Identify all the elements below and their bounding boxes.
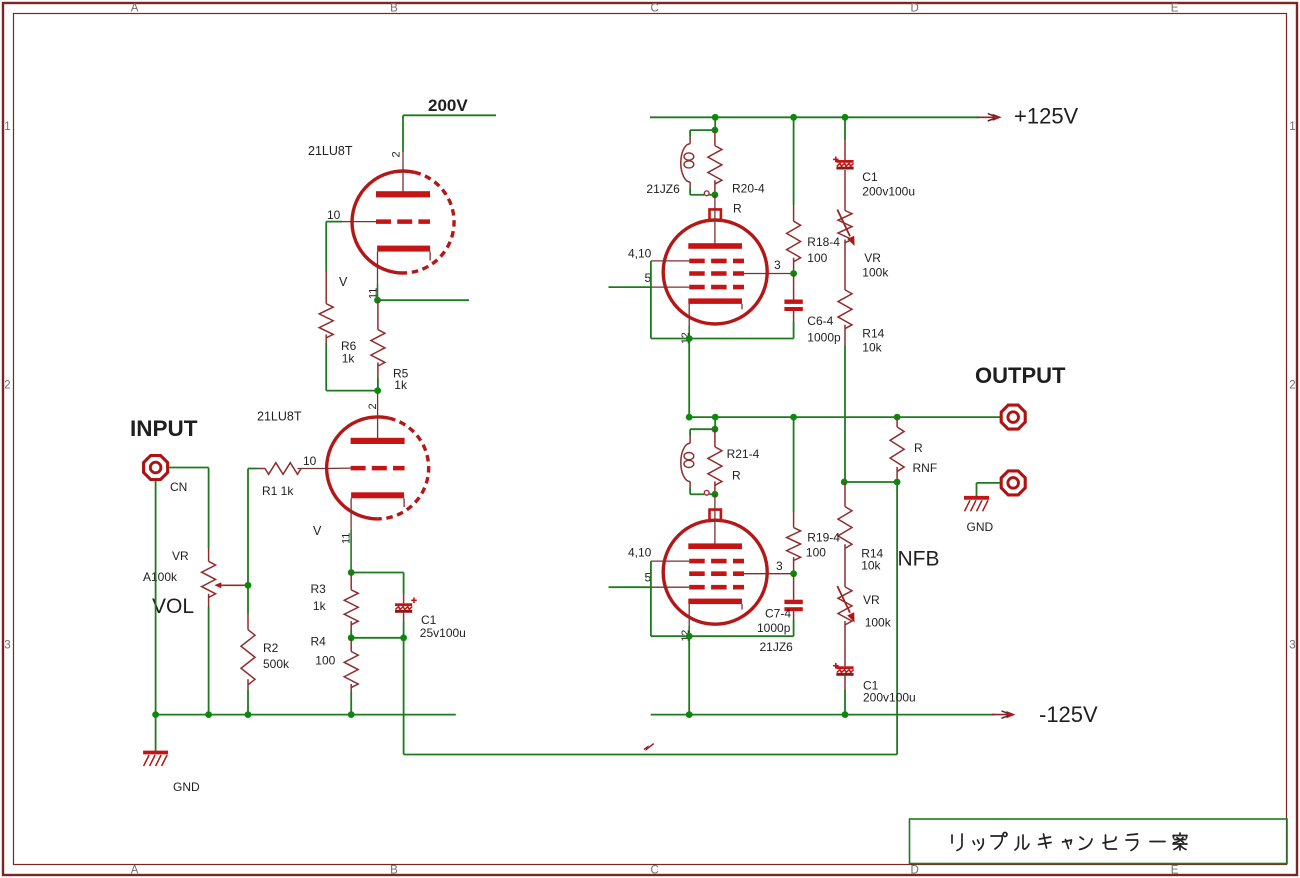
label NFB — [898, 548, 940, 571]
svg-text:11: 11 — [341, 533, 353, 544]
pentode U4 cathode corner — [741, 604, 743, 609]
triode U2 21LU8T envelope — [327, 417, 429, 519]
node mid-left — [686, 414, 693, 421]
wire C1 to R3R4 node — [351, 637, 403, 639]
wire R18 column top — [793, 117, 795, 205]
wire R3 bottom — [350, 630, 352, 638]
label 200V — [428, 96, 468, 115]
wire cathode tie upper — [689, 338, 793, 340]
wire o to node 2 — [709, 493, 715, 495]
node rail-R18 — [790, 114, 797, 121]
pin 2 label V1 — [391, 151, 403, 157]
svg-text:100k: 100k — [865, 616, 892, 630]
svg-text:VR: VR — [864, 251, 881, 265]
label R14 upper — [862, 327, 884, 341]
svg-text:R3: R3 — [311, 582, 327, 596]
capacitor C1 200v100u upper — [833, 140, 854, 174]
wire VR to R14 upper — [844, 240, 846, 290]
svg-text:3: 3 — [1289, 640, 1295, 652]
triode U2 cathode lead — [350, 498, 352, 572]
pentode U4 plate lead — [714, 494, 716, 543]
label VR 100k lower — [865, 616, 892, 630]
node mid-R19 — [790, 414, 797, 421]
label R6 1k — [342, 352, 356, 366]
node V2 cathode — [348, 569, 355, 576]
pentode U3 g3 lead — [652, 286, 689, 288]
node mid-stopper2 — [712, 414, 719, 421]
svg-text:1000p: 1000p — [757, 621, 791, 635]
label R20-4 R — [733, 202, 742, 216]
wire pot bottom to rail — [208, 607, 210, 715]
svg-text:C1: C1 — [862, 170, 878, 184]
svg-text:R18-4: R18-4 — [807, 235, 840, 249]
svg-text:R: R — [732, 469, 741, 483]
svg-text:1: 1 — [4, 121, 10, 133]
label RNF — [913, 461, 938, 475]
wire to ground symbol — [155, 715, 157, 751]
triode U2 plate bar — [351, 438, 405, 444]
wire U4 cathode to rail — [688, 636, 690, 714]
svg-text:21JZ6: 21JZ6 — [760, 640, 794, 654]
wire cathode to C1 branch — [351, 573, 403, 595]
label 4,10 lower — [628, 546, 652, 560]
resistor R4 100 — [344, 638, 358, 692]
pentode U3 grid3 — [689, 285, 744, 290]
label 21LU8T lower — [257, 410, 302, 424]
svg-text:RNF: RNF — [913, 461, 938, 475]
svg-text:10: 10 — [303, 454, 317, 468]
arrow -125V — [992, 711, 1016, 718]
wire R14 down across rail — [844, 345, 846, 482]
resistor R14 10k upper — [838, 290, 852, 345]
node rail-R2 — [245, 711, 252, 718]
label 5 lower — [645, 571, 652, 585]
label R20-4 — [732, 182, 765, 196]
svg-text:21LU8T: 21LU8T — [308, 144, 353, 158]
label GND output — [967, 520, 994, 534]
node rail-R4 — [348, 711, 355, 718]
label VR lower — [863, 593, 880, 607]
label C1 lower right — [863, 679, 879, 693]
label VR upper — [864, 251, 881, 265]
svg-text:3: 3 — [4, 640, 10, 652]
triode U1 21LU8T envelope — [352, 171, 454, 273]
resistor R21-4 — [708, 429, 722, 494]
label 5 upper — [645, 271, 652, 285]
svg-text:R14: R14 — [862, 327, 884, 341]
wire C1 bottom — [403, 622, 405, 638]
resistor R6 1k — [319, 272, 333, 343]
wire g1 bracket upper — [651, 261, 689, 339]
svg-text:200v100u: 200v100u — [862, 185, 915, 199]
title text リップルキャンセラー案 — [952, 833, 1187, 851]
label R1 1k — [262, 484, 294, 498]
label A100k — [143, 570, 178, 584]
resistor R3 1k — [344, 573, 358, 631]
pentode U3 cathode lead — [688, 304, 690, 339]
pentode U4 g1 lead — [651, 560, 689, 562]
svg-text:2: 2 — [4, 380, 10, 392]
pentode U4 g3 lead — [652, 586, 689, 588]
node R5-R6-plate — [374, 387, 381, 394]
svg-text:R2: R2 — [263, 641, 279, 655]
wire stopper1 stub — [714, 117, 716, 130]
label C1 — [421, 613, 437, 627]
label R5 — [393, 367, 409, 381]
label 3 upper — [774, 258, 781, 272]
wire +125V rail — [650, 116, 979, 118]
node RNF bottom — [894, 479, 901, 486]
svg-text:R20-4: R20-4 — [732, 182, 765, 196]
svg-text:C1: C1 — [421, 613, 437, 627]
svg-text:CN: CN — [170, 480, 187, 494]
node V1 cathode — [374, 297, 381, 304]
svg-text:R1 1k: R1 1k — [262, 484, 294, 498]
svg-text:E: E — [1171, 865, 1179, 877]
pentode U4 grid3 — [689, 585, 744, 590]
wire wiper junction up to R1 — [248, 469, 257, 586]
connector CN input — [144, 455, 168, 479]
label R19-4 100 — [806, 546, 826, 560]
wire C1 lower to rail — [844, 690, 846, 715]
svg-text:500k: 500k — [263, 657, 290, 671]
svg-text:E: E — [1171, 3, 1179, 15]
pentode U3 plate lead — [714, 195, 716, 244]
label VOL — [152, 595, 194, 618]
label C6-4 1000p — [807, 331, 841, 345]
rheostat VR 100k upper — [837, 210, 854, 247]
label +125V — [1014, 104, 1079, 129]
wire C1a to VR — [844, 174, 846, 211]
ground GND output — [964, 498, 989, 512]
triode U2 grid — [351, 466, 405, 471]
wire -125V rail — [651, 714, 995, 716]
wire R2 bottom to rail — [247, 690, 249, 715]
resistor R14 10k lower — [838, 482, 852, 587]
svg-text:C7-4: C7-4 — [765, 607, 791, 621]
label 4,10 upper — [628, 247, 652, 261]
label R6 — [341, 339, 357, 353]
pentode U3 grid1 — [689, 259, 744, 264]
svg-text:10k: 10k — [861, 559, 881, 573]
node U4 cathode — [686, 633, 693, 640]
capacitor C7-4 1000p — [784, 574, 802, 620]
node stopper1 top — [712, 127, 719, 134]
triode U2 cathode corner — [403, 498, 405, 507]
wire ground rail left — [156, 714, 456, 716]
wire C7-4 bottom — [793, 620, 795, 636]
svg-text:1k: 1k — [394, 378, 408, 392]
label R4 — [311, 635, 327, 649]
resistor R RNF — [890, 417, 904, 482]
label R2 — [263, 641, 279, 655]
svg-text:B: B — [390, 865, 398, 877]
wire pot top vertical — [208, 468, 210, 549]
svg-text:VR: VR — [172, 549, 189, 563]
pentode U4 cathode lead — [688, 604, 690, 636]
triode U1 cathode bar — [377, 246, 430, 252]
svg-text:21JZ6: 21JZ6 — [646, 182, 680, 196]
capacitor C6-4 1000p — [784, 274, 802, 323]
svg-text:200v100u: 200v100u — [863, 691, 916, 705]
label R21-4 — [727, 447, 760, 461]
wire mid rail — [689, 416, 1000, 418]
node rail-connector — [152, 711, 159, 718]
svg-text:INPUT: INPUT — [130, 416, 198, 441]
label 25v100u — [420, 626, 466, 640]
svg-text:R4: R4 — [311, 635, 327, 649]
label V upper — [339, 275, 348, 289]
label R5 1k — [394, 378, 408, 392]
label C6-4 — [807, 314, 833, 328]
svg-text:21LU8T: 21LU8T — [257, 410, 302, 424]
wire cathode tie lower — [689, 635, 793, 637]
triode U2 grid lead pin 10 — [326, 467, 351, 469]
resistor R18-4 100 — [787, 205, 801, 274]
wire feedback up to NFB — [896, 482, 898, 755]
pentode U3 cathode corner — [741, 304, 743, 309]
pentode U4 grid2 — [689, 571, 744, 576]
pin 11 label V2 — [341, 533, 353, 544]
label R14 lower — [861, 547, 883, 561]
node wiper junction — [245, 582, 252, 589]
node rail-C1a — [842, 114, 849, 121]
wire feedback across — [404, 754, 897, 756]
svg-text:2: 2 — [1289, 380, 1295, 392]
label 21JZ6 lower — [760, 640, 794, 654]
svg-text:C: C — [650, 3, 658, 15]
pentode U4 plate bar — [688, 543, 742, 549]
svg-text:200V: 200V — [428, 96, 468, 115]
wire grid corner V1 — [326, 222, 342, 272]
node C1 bottom — [400, 634, 407, 641]
triode U2 cathode bar — [351, 492, 404, 498]
triode U1 plate lead — [402, 152, 404, 192]
svg-text:1k: 1k — [342, 352, 356, 366]
wire R4 bottom to rail — [350, 692, 352, 715]
node tie left — [841, 479, 848, 486]
node pin3 upper — [790, 270, 797, 277]
wire stopper2 stub — [714, 417, 716, 429]
wire L1 top — [690, 130, 715, 144]
label 21LU8T upper — [308, 144, 353, 158]
wire L2 top — [690, 429, 715, 443]
node stopper1 bottom — [712, 191, 719, 198]
pentode U3 grid2 — [689, 271, 744, 276]
node R3-R4 — [348, 634, 355, 641]
resistor R19-4 100 — [787, 512, 801, 574]
node stopper2 bottom — [712, 491, 719, 498]
connector OUTPUT gnd — [1001, 471, 1025, 495]
svg-text:GND: GND — [967, 520, 994, 534]
svg-text:100: 100 — [806, 546, 826, 560]
wire NFB tie — [844, 481, 897, 483]
svg-text:B: B — [390, 3, 398, 15]
label R21-4 R — [732, 469, 741, 483]
label 3 lower — [776, 559, 783, 573]
node rail-C1lower — [842, 711, 849, 718]
pentode U4 cathode bar — [688, 599, 742, 605]
label R19-4 — [807, 531, 840, 545]
label 21JZ6 upper — [646, 182, 680, 196]
svg-text:100: 100 — [807, 251, 827, 265]
label R3 — [311, 582, 327, 596]
resistor R5 1k — [371, 300, 385, 378]
inductor L1 — [681, 144, 694, 182]
svg-text:2: 2 — [391, 151, 403, 157]
pentode U4 21JZ6 envelope — [663, 510, 767, 625]
svg-text:V: V — [313, 524, 322, 538]
pentode U3 pin3 lead — [744, 273, 794, 275]
pentode U4 grid1 — [689, 559, 744, 564]
rheostat VR 100k lower — [837, 586, 854, 625]
potentiometer VR A100k element — [202, 548, 216, 607]
svg-text:D: D — [910, 3, 918, 15]
wire C6-4 bottom — [793, 322, 795, 339]
pentode U3 21JZ6 envelope — [663, 209, 767, 324]
wire 200V rail — [403, 114, 496, 116]
svg-text:R19-4: R19-4 — [807, 531, 840, 545]
svg-text:VR: VR — [863, 593, 880, 607]
wire feedback down — [403, 638, 405, 755]
pentode U3 cathode bar — [688, 298, 742, 304]
svg-text:1: 1 — [1289, 121, 1295, 133]
triode U1 cathode lead — [377, 252, 379, 301]
svg-text:R: R — [733, 202, 742, 216]
wire g3 stub upper — [609, 286, 653, 288]
pentode U3 plate bar — [688, 243, 742, 249]
triode U1 cathode corner — [429, 252, 431, 261]
inductor L2 — [681, 443, 694, 481]
resistor R2 500k — [241, 614, 255, 690]
pin 11 label V1 — [368, 288, 380, 299]
label CN — [170, 480, 187, 494]
label RNF R — [914, 441, 923, 455]
ground GND input — [143, 753, 168, 767]
svg-text:4,10: 4,10 — [628, 247, 652, 261]
svg-text:25v100u: 25v100u — [420, 626, 466, 640]
node rail-U4cathode — [686, 711, 693, 718]
svg-text:4,10: 4,10 — [628, 546, 652, 560]
svg-text:OUTPUT: OUTPUT — [975, 363, 1066, 388]
arrow +125V — [977, 114, 1002, 121]
svg-text:R21-4: R21-4 — [727, 447, 760, 461]
node stopper2 top — [712, 426, 719, 433]
svg-text:VOL: VOL — [152, 595, 194, 618]
svg-text:100k: 100k — [862, 266, 889, 280]
label C1 upper right — [862, 170, 878, 184]
wire L2 bottom — [690, 482, 704, 495]
svg-text:C: C — [650, 865, 658, 877]
svg-text:+125V: +125V — [1014, 104, 1079, 129]
svg-text:10k: 10k — [862, 341, 882, 355]
resistor R1 1k — [257, 463, 326, 475]
wire R2 top — [247, 585, 249, 614]
wire U3 cathode down — [688, 339, 690, 418]
label R4 100 — [315, 654, 335, 668]
svg-text:3: 3 — [776, 559, 783, 573]
wire C1a top — [844, 117, 846, 140]
capacitor C1 25v100u — [395, 594, 417, 622]
pin circle L2 — [704, 490, 709, 495]
svg-text:10: 10 — [327, 208, 341, 222]
node rail-pot — [205, 711, 212, 718]
svg-text:D: D — [910, 865, 918, 877]
potentiometer VR wiper arrow — [214, 582, 248, 588]
label -125V — [1039, 702, 1098, 727]
triode U2 plate lead — [377, 394, 379, 439]
node rail-stopper1 — [712, 114, 719, 121]
svg-text:R: R — [914, 441, 923, 455]
wire o to node — [709, 194, 715, 196]
wire connector down to rail — [155, 481, 157, 715]
label pin 10 V2 — [303, 454, 317, 468]
pin 12 label U4 — [680, 630, 692, 642]
node mid-RNF — [894, 414, 901, 421]
pin 12 label U3 — [680, 332, 692, 344]
label INPUT — [130, 416, 198, 441]
label GND input — [173, 780, 200, 794]
wire R6 bottom to node — [326, 343, 377, 391]
svg-text:100: 100 — [315, 654, 335, 668]
label 500k — [263, 657, 290, 671]
capacitor C1 200v100u lower — [833, 663, 854, 690]
wire input to pot top — [169, 467, 209, 469]
svg-text:V: V — [339, 275, 348, 289]
triode U1 grid lead pin 10 — [342, 221, 376, 223]
label OUTPUT — [975, 363, 1066, 388]
pin 2 label V2 — [367, 403, 379, 409]
label R18-4 100 — [807, 251, 827, 265]
svg-text:1000p: 1000p — [807, 331, 841, 345]
svg-text:3: 3 — [774, 258, 781, 272]
wire VR to C1 lower — [844, 621, 846, 666]
svg-text:GND: GND — [173, 780, 200, 794]
svg-text:1k: 1k — [313, 599, 327, 613]
label VR 100k upper — [862, 266, 889, 280]
connector OUTPUT hot — [1001, 405, 1025, 429]
svg-text:A100k: A100k — [143, 570, 178, 584]
svg-text:A: A — [131, 865, 139, 877]
resistor R20-4 — [708, 130, 722, 195]
label R14 10k upper — [862, 341, 882, 355]
label 200v100u upper — [862, 185, 915, 199]
wire g1 bracket lower — [651, 561, 689, 636]
node U3 cathode — [686, 335, 693, 342]
svg-text:A: A — [131, 3, 139, 15]
node pin3 lower — [790, 570, 797, 577]
wire R5 bottom — [377, 378, 379, 391]
pentode U4 pin3 lead — [744, 573, 794, 575]
mark check — [644, 744, 654, 750]
wire output gnd stub — [977, 483, 1001, 496]
label R14 10k lower — [861, 559, 881, 573]
triode U1 plate bar — [376, 191, 430, 197]
wire plate drop V1 — [402, 115, 404, 152]
wire R19 column — [793, 417, 795, 512]
svg-text:-125V: -125V — [1039, 702, 1098, 727]
label C7-4 1000p — [757, 621, 791, 635]
label C7-4 — [765, 607, 791, 621]
title block box — [910, 819, 1288, 864]
pin circle L1 — [704, 191, 709, 196]
svg-text:C6-4: C6-4 — [807, 314, 833, 328]
triode U1 grid — [376, 219, 430, 224]
label R18-4 — [807, 235, 840, 249]
wire g3 stub lower — [609, 586, 653, 588]
pentode U3 g1 lead — [651, 260, 689, 262]
wire cathode stub right — [378, 299, 470, 301]
